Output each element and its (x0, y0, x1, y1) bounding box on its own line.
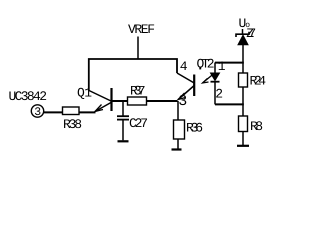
svg-text:3: 3 (34, 106, 41, 119)
svg-text:UC3842: UC3842 (9, 89, 48, 104)
svg-text:3: 3 (178, 93, 187, 110)
svg-text:2: 2 (215, 87, 223, 102)
svg-text:R36: R36 (186, 121, 203, 136)
svg-text:C27: C27 (129, 116, 148, 131)
svg-text:R24: R24 (250, 74, 267, 89)
svg-text:4: 4 (180, 59, 188, 74)
svg-text:1: 1 (218, 59, 226, 74)
svg-text:Q1: Q1 (77, 86, 92, 101)
svg-text:R8: R8 (250, 119, 263, 134)
svg-text:VREF: VREF (128, 22, 155, 37)
svg-text:OT2: OT2 (197, 57, 215, 72)
svg-text:R37: R37 (130, 84, 146, 99)
svg-text:o: o (245, 21, 250, 30)
svg-text:R38: R38 (63, 117, 82, 132)
